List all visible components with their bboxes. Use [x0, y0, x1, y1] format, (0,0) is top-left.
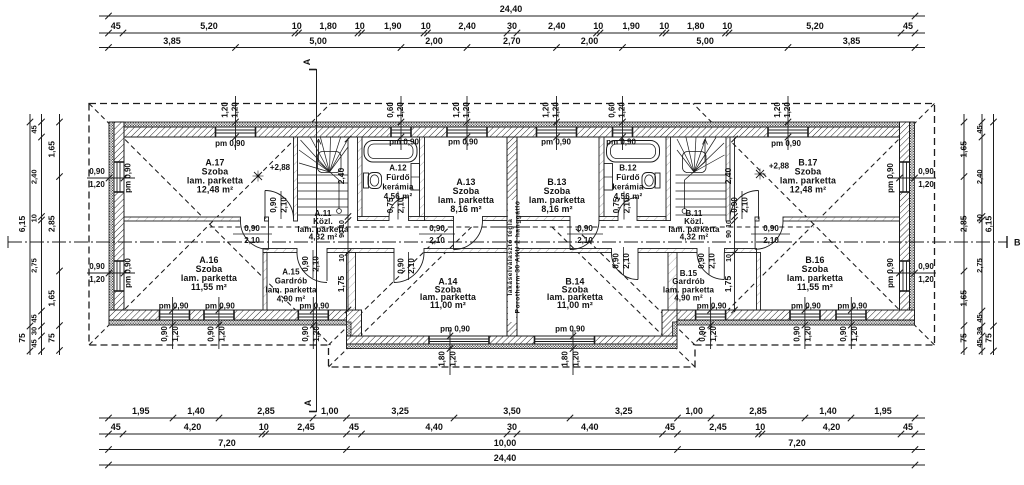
svg-text:1,20: 1,20 — [783, 102, 792, 118]
svg-text:10: 10 — [755, 422, 765, 432]
svg-text:1,40: 1,40 — [187, 406, 205, 416]
svg-text:A.15: A.15 — [282, 268, 300, 277]
svg-text:2,45: 2,45 — [709, 422, 727, 432]
svg-text:45: 45 — [903, 21, 913, 31]
svg-text:+2,88: +2,88 — [270, 163, 291, 172]
svg-text:0,75: 0,75 — [612, 197, 621, 213]
svg-text:4,20: 4,20 — [184, 422, 202, 432]
svg-text:2,10: 2,10 — [622, 253, 631, 269]
svg-text:A.12: A.12 — [389, 164, 407, 173]
svg-text:0,90: 0,90 — [89, 167, 105, 176]
svg-text:2,10: 2,10 — [429, 236, 445, 245]
svg-text:75: 75 — [17, 333, 27, 343]
svg-text:10: 10 — [339, 254, 346, 262]
svg-text:0,90: 0,90 — [89, 262, 105, 271]
svg-text:1,20: 1,20 — [850, 326, 859, 342]
svg-text:2,75: 2,75 — [30, 258, 39, 273]
svg-text:1,20: 1,20 — [449, 351, 458, 367]
svg-text:2,85: 2,85 — [257, 406, 275, 416]
svg-text:lakáselválasztó tégla: lakáselválasztó tégla — [507, 219, 514, 296]
svg-text:0,90: 0,90 — [612, 253, 621, 269]
svg-text:30: 30 — [507, 21, 517, 31]
svg-text:lam. parketta: lam. parketta — [265, 286, 317, 295]
svg-text:90: 90 — [726, 230, 733, 238]
svg-text:A: A — [302, 58, 312, 65]
svg-text:0,90: 0,90 — [698, 326, 707, 342]
svg-text:4,40: 4,40 — [425, 422, 443, 432]
svg-text:6,15: 6,15 — [984, 215, 994, 232]
svg-text:2,45: 2,45 — [297, 422, 315, 432]
svg-text:2,40: 2,40 — [336, 167, 346, 184]
svg-text:45: 45 — [349, 422, 359, 432]
svg-text:0,60: 0,60 — [386, 102, 395, 118]
svg-text:Fürdő: Fürdő — [386, 173, 409, 182]
svg-text:1,80: 1,80 — [319, 21, 337, 31]
svg-text:10: 10 — [292, 21, 302, 31]
svg-text:3,85: 3,85 — [163, 36, 181, 46]
svg-text:1,20: 1,20 — [552, 102, 561, 118]
svg-text:10: 10 — [726, 254, 733, 262]
svg-text:1,20: 1,20 — [396, 102, 405, 118]
svg-text:1,20: 1,20 — [171, 326, 180, 342]
svg-text:4,20: 4,20 — [823, 422, 841, 432]
svg-text:3,25: 3,25 — [615, 406, 633, 416]
svg-text:Fürdő: Fürdő — [616, 173, 639, 182]
svg-text:10: 10 — [726, 220, 733, 228]
svg-text:pm 0,90: pm 0,90 — [541, 138, 571, 147]
svg-text:1,65: 1,65 — [47, 141, 57, 158]
svg-text:5,20: 5,20 — [806, 21, 824, 31]
svg-text:pm 0,90: pm 0,90 — [886, 258, 895, 288]
svg-text:kerámia: kerámia — [382, 183, 414, 192]
svg-text:5,20: 5,20 — [200, 21, 218, 31]
svg-text:8,16 m²: 8,16 m² — [541, 204, 572, 214]
svg-text:1,20: 1,20 — [542, 102, 551, 118]
svg-text:pm 0,90: pm 0,90 — [771, 139, 801, 148]
svg-text:0,90: 0,90 — [697, 253, 706, 269]
svg-text:1,20: 1,20 — [221, 102, 230, 118]
svg-text:pm 0,90: pm 0,90 — [389, 138, 419, 147]
svg-text:2,10: 2,10 — [407, 258, 416, 274]
svg-text:kerámia: kerámia — [612, 183, 644, 192]
svg-text:0,90: 0,90 — [301, 256, 310, 272]
svg-text:2,70: 2,70 — [503, 36, 521, 46]
svg-text:2,10: 2,10 — [741, 197, 750, 213]
svg-text:1,20: 1,20 — [452, 102, 461, 118]
svg-text:45: 45 — [111, 21, 121, 31]
svg-text:45: 45 — [665, 422, 675, 432]
svg-text:8,16 m²: 8,16 m² — [450, 204, 481, 214]
svg-text:2,85: 2,85 — [749, 406, 767, 416]
svg-text:2,10: 2,10 — [623, 197, 632, 213]
svg-text:75: 75 — [984, 333, 994, 343]
svg-text:4,40: 4,40 — [581, 422, 599, 432]
svg-text:2,75: 2,75 — [975, 258, 984, 273]
svg-text:30: 30 — [507, 422, 517, 432]
svg-text:pm 0,90: pm 0,90 — [124, 258, 133, 288]
svg-text:2,10: 2,10 — [763, 236, 779, 245]
svg-text:10: 10 — [421, 21, 431, 31]
svg-text:1,00: 1,00 — [321, 406, 339, 416]
svg-text:pm 0,90: pm 0,90 — [159, 302, 189, 311]
svg-text:75: 75 — [47, 333, 57, 343]
svg-text:pm 0,90: pm 0,90 — [791, 302, 821, 311]
svg-text:2,10: 2,10 — [280, 197, 289, 213]
svg-text:24,40: 24,40 — [500, 4, 523, 14]
svg-text:11,55 m²: 11,55 m² — [797, 282, 833, 292]
svg-text:pm 0,90: pm 0,90 — [448, 138, 478, 147]
svg-text:1,20: 1,20 — [709, 326, 718, 342]
svg-text:0,90: 0,90 — [730, 197, 739, 213]
svg-text:0,90: 0,90 — [160, 326, 169, 342]
svg-text:2,85: 2,85 — [959, 215, 969, 232]
svg-text:0,90: 0,90 — [206, 326, 215, 342]
svg-text:0,75: 0,75 — [386, 197, 395, 213]
svg-text:0,90: 0,90 — [839, 326, 848, 342]
svg-text:1,20: 1,20 — [462, 102, 471, 118]
svg-text:0,90: 0,90 — [918, 262, 934, 271]
svg-text:3,85: 3,85 — [843, 36, 861, 46]
svg-text:2,40: 2,40 — [548, 21, 566, 31]
svg-text:45: 45 — [975, 125, 984, 133]
svg-text:1,20: 1,20 — [89, 275, 105, 284]
svg-text:5,00: 5,00 — [696, 36, 714, 46]
svg-text:45: 45 — [975, 314, 984, 322]
svg-text:45: 45 — [111, 422, 121, 432]
svg-text:1,00: 1,00 — [685, 406, 703, 416]
svg-text:pm 0,90: pm 0,90 — [215, 139, 245, 148]
svg-text:1,20: 1,20 — [918, 180, 934, 189]
svg-text:0,60: 0,60 — [608, 102, 617, 118]
svg-text:10: 10 — [259, 422, 269, 432]
svg-text:45: 45 — [903, 422, 913, 432]
svg-text:1,20: 1,20 — [618, 102, 627, 118]
svg-text:45: 45 — [975, 339, 984, 347]
svg-text:24,40: 24,40 — [494, 453, 517, 463]
svg-text:1,20: 1,20 — [773, 102, 782, 118]
svg-text:3,25: 3,25 — [391, 406, 409, 416]
svg-text:1,20: 1,20 — [572, 351, 581, 367]
svg-text:0,90: 0,90 — [792, 326, 801, 342]
svg-text:pm 0,90: pm 0,90 — [555, 325, 585, 334]
svg-text:0,90: 0,90 — [269, 197, 278, 213]
svg-text:11,00 m²: 11,00 m² — [557, 300, 593, 310]
svg-text:1,90: 1,90 — [384, 21, 402, 31]
svg-text:12,48 m²: 12,48 m² — [790, 185, 826, 195]
svg-text:1,95: 1,95 — [874, 406, 892, 416]
svg-text:B.12: B.12 — [619, 164, 637, 173]
svg-text:pm 0,90: pm 0,90 — [697, 302, 727, 311]
svg-text:30: 30 — [30, 327, 39, 335]
svg-text:1,80: 1,80 — [687, 21, 705, 31]
svg-text:1,65: 1,65 — [959, 141, 969, 158]
svg-text:pm 0,90: pm 0,90 — [205, 302, 235, 311]
svg-text:2,10: 2,10 — [708, 253, 717, 269]
svg-text:5,00: 5,00 — [309, 36, 327, 46]
svg-text:30: 30 — [975, 327, 984, 335]
svg-text:pm 0,90: pm 0,90 — [886, 163, 895, 193]
svg-text:pm 0,90: pm 0,90 — [124, 163, 133, 193]
svg-text:45: 45 — [30, 314, 39, 322]
svg-text:2,40: 2,40 — [723, 167, 733, 184]
svg-text:10: 10 — [975, 214, 984, 222]
svg-text:2,00: 2,00 — [425, 36, 443, 46]
svg-text:6,15: 6,15 — [17, 215, 27, 232]
svg-text:+2,88: +2,88 — [769, 162, 790, 171]
svg-text:0,90: 0,90 — [429, 224, 445, 233]
svg-text:3,50: 3,50 — [503, 406, 521, 416]
svg-text:7,20: 7,20 — [788, 438, 806, 448]
svg-text:2,85: 2,85 — [47, 215, 57, 232]
svg-text:2,00: 2,00 — [581, 36, 599, 46]
svg-text:pm 0,90: pm 0,90 — [299, 302, 329, 311]
svg-text:1,20: 1,20 — [217, 326, 226, 342]
svg-text:45: 45 — [30, 125, 39, 133]
svg-text:Porotherm 30 AKU 2 hanggátló: Porotherm 30 AKU 2 hanggátló — [515, 201, 522, 314]
svg-text:B: B — [1014, 238, 1021, 248]
svg-text:0,90: 0,90 — [397, 258, 406, 274]
svg-text:1,80: 1,80 — [561, 351, 570, 367]
svg-text:0,90: 0,90 — [244, 224, 260, 233]
svg-text:1,20: 1,20 — [803, 326, 812, 342]
svg-text:11,00 m²: 11,00 m² — [430, 300, 466, 310]
svg-text:11,55 m²: 11,55 m² — [191, 282, 227, 292]
svg-text:Gardrób: Gardrób — [275, 277, 308, 286]
svg-text:45: 45 — [30, 339, 39, 347]
svg-text:10: 10 — [722, 21, 732, 31]
svg-text:1,95: 1,95 — [132, 406, 150, 416]
svg-text:4,32 m²: 4,32 m² — [680, 233, 709, 242]
svg-text:0,90: 0,90 — [763, 224, 779, 233]
svg-text:1,20: 1,20 — [918, 275, 934, 284]
svg-text:0,90: 0,90 — [918, 167, 934, 176]
svg-text:pm 0,90: pm 0,90 — [837, 302, 867, 311]
svg-text:0,90: 0,90 — [301, 326, 310, 342]
svg-text:2,40: 2,40 — [975, 169, 984, 184]
svg-text:10: 10 — [659, 21, 669, 31]
svg-text:1,65: 1,65 — [959, 290, 969, 307]
svg-text:1,80: 1,80 — [438, 351, 447, 367]
svg-text:10: 10 — [355, 21, 365, 31]
svg-text:2,40: 2,40 — [30, 169, 39, 184]
svg-text:7,20: 7,20 — [218, 438, 236, 448]
svg-text:1,75: 1,75 — [723, 275, 733, 292]
svg-text:0,90: 0,90 — [577, 224, 593, 233]
svg-text:2,10: 2,10 — [244, 236, 260, 245]
svg-text:1,75: 1,75 — [336, 275, 346, 292]
svg-text:12,48 m²: 12,48 m² — [197, 185, 233, 195]
svg-text:10,00: 10,00 — [494, 438, 517, 448]
svg-text:75: 75 — [959, 333, 969, 343]
svg-text:2,10: 2,10 — [397, 197, 406, 213]
svg-text:10: 10 — [30, 214, 39, 222]
svg-text:pm 0,90: pm 0,90 — [606, 138, 636, 147]
svg-text:1,90: 1,90 — [622, 21, 640, 31]
svg-text:1,65: 1,65 — [47, 290, 57, 307]
svg-text:pm 0,90: pm 0,90 — [440, 325, 470, 334]
svg-text:2,10: 2,10 — [577, 236, 593, 245]
svg-text:2,40: 2,40 — [458, 21, 476, 31]
svg-text:10: 10 — [593, 21, 603, 31]
svg-text:A: A — [303, 399, 313, 406]
svg-text:1,20: 1,20 — [89, 180, 105, 189]
svg-text:1,20: 1,20 — [231, 102, 240, 118]
svg-text:1,40: 1,40 — [819, 406, 837, 416]
svg-text:4,32 m²: 4,32 m² — [309, 233, 338, 242]
